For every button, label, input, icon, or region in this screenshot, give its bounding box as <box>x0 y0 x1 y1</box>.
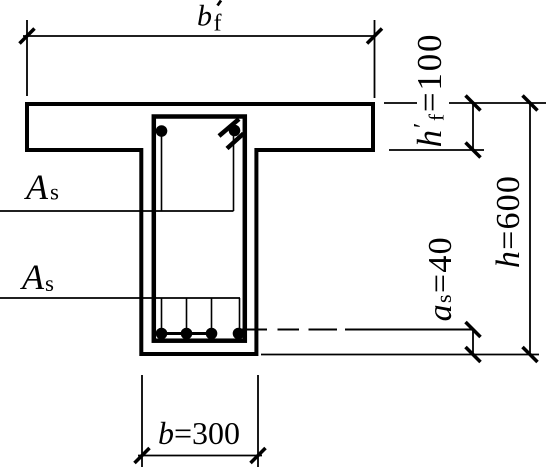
bottom rebar connector 4 <box>239 298 241 334</box>
b'f tick left <box>20 29 35 44</box>
h'f extension line top (left of label) <box>384 102 417 104</box>
as dashed leader segment 3 <box>309 329 338 331</box>
bottom rebar connector 2 <box>186 298 188 334</box>
label h=600 <box>490 175 527 268</box>
h'f dimension line <box>472 103 474 150</box>
svg-text:f: f <box>214 11 222 37</box>
svg-text:A: A <box>24 167 49 207</box>
bottom rebar connector 1 <box>161 298 163 334</box>
top rebar dot left <box>156 125 168 137</box>
svg-text:s: s <box>50 180 59 205</box>
bottom rebar dot 1 <box>156 328 168 340</box>
bottom extension line <box>261 354 539 356</box>
leader line As top <box>0 210 234 212</box>
stirrup hook upper stroke <box>219 119 239 136</box>
bottom rebar dot 4 <box>233 328 245 340</box>
svg-text:A: A <box>20 257 45 297</box>
as tick top <box>466 322 481 337</box>
T-beam section outline <box>27 104 373 354</box>
b extension line right <box>257 375 259 467</box>
svg-text:as=40: as=40 <box>422 236 459 321</box>
h tick bottom <box>523 347 538 362</box>
svg-text:h=600: h=600 <box>490 175 527 268</box>
as dashed leader segment 4 <box>345 329 473 331</box>
as dashed leader segment 2 <box>278 329 300 331</box>
b dimension line <box>138 455 262 457</box>
h'f tick top <box>466 96 481 111</box>
top rebar connector left <box>161 131 163 211</box>
h'f tick bottom <box>466 143 481 158</box>
label h'f=100 <box>410 33 449 148</box>
b'f dimension line <box>23 35 376 37</box>
h'f extension line bottom <box>389 149 484 151</box>
b extension line left <box>141 375 143 467</box>
svg-text:s: s <box>45 271 54 296</box>
h'f extension line top (right of label) <box>449 102 546 104</box>
bottom rebar dot 3 <box>206 328 218 340</box>
stirrup hook lower stroke <box>227 134 244 149</box>
b'f extension line left <box>26 20 28 96</box>
top rebar dot right <box>229 125 241 137</box>
svg-text:b=300: b=300 <box>158 415 240 451</box>
b tick right <box>251 448 266 463</box>
leader line As bottom <box>0 297 240 299</box>
svg-text:h′f=100: h′f=100 <box>410 33 449 148</box>
as dimension line <box>472 330 474 355</box>
top rebar connector right <box>233 135 235 211</box>
bottom rebar dot 2 <box>181 328 193 340</box>
b tick left <box>135 448 150 463</box>
h tick top <box>523 96 538 111</box>
as dashed leader segment 1 <box>239 329 268 331</box>
bottom rebar connector 3 <box>211 298 213 334</box>
label as=40 <box>422 236 459 321</box>
b'f extension line right <box>374 20 376 98</box>
as tick bottom <box>466 347 481 362</box>
b'f tick right <box>367 29 382 44</box>
stirrup <box>154 117 245 341</box>
h dimension line <box>529 103 531 355</box>
svg-text:b: b <box>197 0 212 33</box>
bottom rebar bar line <box>162 332 212 335</box>
